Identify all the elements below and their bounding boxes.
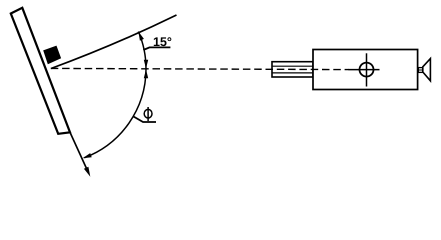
surface extension line [70,132,89,173]
label 15 degrees [154,37,172,46]
connector stub (right side) [418,68,422,73]
connector cone [423,59,431,81]
transducer block (black square on plate edge) [44,47,60,64]
probe body [313,50,418,90]
arc phi [84,69,146,158]
beam line at 15 degrees [51,15,177,69]
arrowhead arc-phi lower (at extension line) [83,153,92,158]
probe cable stub (ribbed) [272,62,313,77]
plate (tilted test block) [11,8,70,134]
centerline (dashed) [51,68,349,69]
leader of 15 deg label [143,47,170,50]
arrowhead arc-phi upper (at centerline) [144,69,148,78]
arrowhead arc15 lower (at centerline) [144,60,148,69]
leader of phi label [134,117,157,123]
center mark (circle + crosshair) [349,53,380,86]
arc 15 degrees [138,32,146,69]
arrowhead arc15 upper (at beam line) [138,32,144,41]
label phi (drawn glyph) [144,107,152,121]
arrowhead of extension line [84,167,90,177]
